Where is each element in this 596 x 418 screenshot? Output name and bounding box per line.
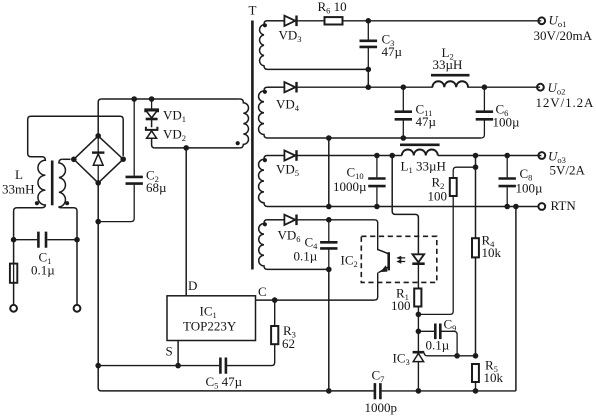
svg-text:T: T [249, 3, 257, 18]
resistor R4 10k [472, 238, 479, 257]
svg-text:100µ: 100µ [516, 181, 544, 196]
node C8 bottom [504, 204, 510, 210]
svg-text:68µ: 68µ [146, 180, 167, 195]
inductor L2 33uH [431, 75, 540, 87]
source pin wire S [177, 341, 179, 366]
output terminal RTN [538, 203, 545, 210]
node C3 top [366, 18, 372, 24]
choke phase dot left [35, 201, 39, 205]
node R2 top join [473, 164, 479, 170]
control pin wire C [256, 299, 375, 301]
winding 1 phase dot [263, 23, 267, 27]
svg-text:D: D [188, 278, 197, 293]
svg-text:5V/2A: 5V/2A [550, 163, 586, 178]
node C11 top [401, 84, 407, 90]
svg-text:L1 33µH: L1 33µH [401, 159, 446, 176]
resistor R2 100 [418, 167, 475, 314]
capacitor C8 100u [499, 156, 516, 207]
wire C1 node up to choke left winding bottom [14, 208, 41, 240]
inductor L1 33uH [400, 145, 541, 156]
node winding4 return [326, 267, 332, 273]
winding 4 phase dot [263, 222, 267, 226]
shunt regulator IC3 TL431 [413, 352, 476, 391]
wire left vertical to bottom rail [98, 366, 101, 391]
wire winding1 top to VD3 [269, 20, 285, 22]
AC input terminal right [74, 305, 81, 312]
node R4 branch top [473, 153, 479, 159]
capacitor C5 47u [98, 358, 226, 374]
node 12V return join RTN [326, 204, 332, 210]
node C4 top [326, 217, 332, 223]
node S rail left [95, 363, 101, 369]
choke right winding top lead [62, 158, 70, 160]
transformer secondary winding 1 [260, 21, 269, 70]
node C10 bottom [374, 204, 380, 210]
choke core [51, 161, 54, 206]
capacitor C6 100u [476, 87, 493, 138]
transformer secondary winding 2 [259, 87, 269, 138]
resistor R5 10k [472, 364, 479, 391]
node drain D [183, 145, 189, 151]
wire left terminal to fuse [13, 283, 15, 305]
bridge rectifier diamond [74, 136, 123, 183]
svg-text:0.1µ: 0.1µ [31, 263, 55, 278]
wire drain down to D pin [185, 148, 187, 296]
svg-text:47µ: 47µ [382, 44, 403, 59]
AC input terminal left [10, 305, 17, 312]
opto LED [412, 254, 424, 288]
fuse FU [10, 263, 17, 283]
wire LED feed jog [392, 156, 418, 255]
wire right terminal to C1 node to choke right winding bottom [62, 208, 77, 305]
choke left winding top lead [28, 116, 124, 157]
capacitor C2 68u [98, 99, 143, 222]
bottom source rail left of C7 [101, 390, 374, 392]
node R1 bottom R2 join [416, 312, 422, 318]
node C1 left [11, 237, 17, 243]
svg-text:47µ: 47µ [416, 114, 437, 129]
output terminal Uo1 [538, 17, 545, 24]
transformer T primary winding [240, 99, 249, 148]
svg-text:RTN: RTN [551, 198, 577, 213]
svg-text:100µ: 100µ [493, 115, 521, 130]
node VD1 top [149, 96, 155, 102]
node R3 top [272, 297, 278, 303]
node S rail [175, 363, 181, 369]
node C2 top [131, 96, 137, 102]
node C6 top [482, 84, 488, 90]
node R5 bottom [473, 388, 479, 394]
svg-text:0.1µ: 0.1µ [294, 249, 318, 264]
wire R4 vertical [475, 156, 477, 356]
node C9 branch [416, 329, 422, 335]
capacitor C10 1000u [368, 156, 385, 207]
output terminal Uo3 [538, 152, 545, 159]
svg-text:S: S [166, 344, 173, 359]
output terminal Uo2 [537, 84, 544, 91]
transformer bias winding 4 [259, 220, 269, 270]
node LED feed top [389, 153, 395, 159]
node row2 stack join [366, 84, 372, 90]
wire stack vertical row1 to row2 [367, 69, 369, 87]
drain wire winding bottom to VD2 [155, 147, 240, 149]
transient suppressor VD1 [145, 99, 158, 127]
winding 3 phase dot [263, 158, 267, 162]
svg-text:100: 100 [428, 189, 448, 204]
svg-text:1000p: 1000p [365, 400, 398, 415]
svg-text:10k: 10k [482, 245, 502, 260]
opto phototransistor [375, 249, 389, 300]
node C9 right join ref [454, 353, 460, 359]
capacitor C11 47u [395, 87, 412, 138]
capacitor C9 0.1u [418, 324, 457, 356]
node C11 bottom [401, 135, 407, 141]
wire winding2 top to VD4 [269, 86, 285, 88]
wire bridge bottom down left vertical to S rail [97, 183, 99, 366]
bridge node top [95, 133, 101, 139]
diode VD4 [284, 82, 432, 93]
svg-text:100: 100 [391, 298, 411, 313]
blocking diode VD2 [146, 127, 158, 148]
bridge node left [71, 157, 77, 163]
wire RTN rail [269, 206, 538, 208]
wire winding3 top to VD5 [269, 155, 285, 157]
optocoupler IC2 dashed box [361, 236, 437, 282]
wire fuse to C1 node [13, 240, 15, 264]
IC1 TOP223Y box [167, 296, 256, 341]
choke phase dot right [65, 201, 69, 205]
svg-text:12V/1.2A: 12V/1.2A [536, 95, 595, 110]
capacitor C3 47u [360, 21, 378, 70]
svg-text:30V/20mA: 30V/20mA [534, 28, 593, 43]
node DC- C2 return [95, 219, 101, 225]
svg-text:TOP223Y: TOP223Y [183, 319, 237, 334]
wire bias return down to source rail [328, 269, 330, 391]
transformer secondary winding 3 [259, 156, 269, 207]
node bias return join [326, 388, 332, 394]
diode VD6 [284, 215, 377, 251]
svg-text:L: L [15, 167, 23, 182]
svg-text:33mH: 33mH [2, 182, 35, 197]
node C10 top [374, 153, 380, 159]
node RTN right vertical [513, 204, 519, 210]
svg-text:33µH: 33µH [433, 57, 463, 72]
wire winding2 bottom rail [269, 137, 481, 139]
opto light arrows [396, 256, 405, 264]
svg-text:0.1µ: 0.1µ [426, 338, 450, 353]
svg-text:R6 10: R6 10 [318, 0, 347, 16]
primary phase dot [236, 141, 240, 145]
svg-text:62: 62 [282, 336, 295, 351]
resistor R6 10 [325, 17, 542, 24]
svg-text:C: C [258, 284, 267, 299]
bridge node bottom [95, 180, 101, 186]
node C8 top [504, 153, 510, 159]
node 12V return vertical top [326, 135, 332, 141]
resistor R1 100 [414, 289, 421, 352]
capacitor C1 0.1u [14, 232, 77, 248]
svg-text:C5 47µ: C5 47µ [206, 374, 243, 391]
wire bridge top to DC+ rail [98, 99, 101, 136]
bridge node right [120, 156, 126, 162]
node R4 R5 ref junction [473, 353, 479, 359]
DC+ rail to primary winding top [101, 98, 240, 100]
transformer core [251, 21, 254, 270]
wire 12V return down to RTN rail [328, 138, 330, 207]
diode VD3 [284, 16, 324, 27]
node stack row1 return [366, 67, 372, 73]
node C1 right [74, 237, 80, 243]
node IC3 anode ground [416, 388, 422, 394]
diode VD5 [284, 150, 401, 161]
svg-text:10k: 10k [484, 370, 504, 385]
capacitor C4 0.1u [320, 220, 337, 270]
wire winding4 top to VD6 [269, 219, 285, 221]
capacitor C7 1000p [375, 383, 516, 399]
wire winding4 bottom to ground vertical [269, 268, 329, 270]
resistor R3 62 [227, 300, 278, 366]
winding 2 phase dot [263, 90, 267, 94]
wire winding1 bottom [269, 68, 368, 70]
wire RTN right vertical down to Y-cap rail [515, 207, 517, 391]
common-mode choke L 33mH left winding [38, 157, 45, 208]
choke L right winding [59, 159, 66, 208]
svg-text:1000µ: 1000µ [333, 179, 367, 194]
